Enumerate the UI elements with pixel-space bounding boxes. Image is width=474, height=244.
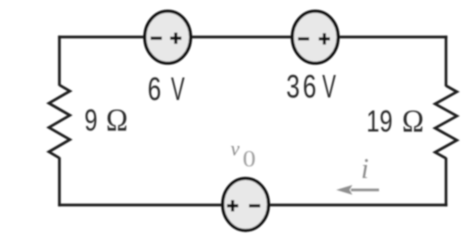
svg-text:6: 6 xyxy=(148,72,162,108)
svg-text:i: i xyxy=(361,154,369,185)
resistor R2 19ohm zigzag xyxy=(435,86,457,159)
svg-text:9: 9 xyxy=(84,102,97,137)
label 9 ohm xyxy=(84,102,127,137)
V1 plus sign xyxy=(170,33,181,44)
label 6 V xyxy=(148,71,185,107)
svg-text:36: 36 xyxy=(286,69,319,105)
svg-text:v: v xyxy=(231,139,240,161)
V2 plus sign xyxy=(319,37,330,40)
resistor R1 9ohm zigzag xyxy=(49,85,70,158)
wire left side upper segment xyxy=(58,36,61,86)
wire bottom side xyxy=(58,204,447,207)
wire right side lower segment xyxy=(445,158,448,207)
current arrow xyxy=(351,189,379,192)
voltage source V1 6V circle xyxy=(145,11,191,63)
label 19 ohm xyxy=(366,103,423,138)
V0 minus sign xyxy=(249,204,260,207)
wire top side xyxy=(58,36,447,39)
voltage source V0 bottom circle xyxy=(223,178,269,230)
svg-text:19: 19 xyxy=(366,103,392,138)
voltage source V2 36V circle xyxy=(292,11,338,63)
V2 minus sign xyxy=(298,37,309,40)
label v0 xyxy=(231,139,256,172)
wire left side lower segment xyxy=(58,157,61,206)
V0 plus sign xyxy=(227,200,238,211)
svg-text:V: V xyxy=(322,69,336,105)
label 36 V xyxy=(286,69,336,105)
wire right side upper segment xyxy=(445,36,448,87)
svg-text:V: V xyxy=(171,71,185,107)
svg-text:Ω: Ω xyxy=(402,103,424,138)
svg-text:Ω: Ω xyxy=(106,102,128,137)
svg-text:0: 0 xyxy=(243,147,256,172)
V1 minus sign xyxy=(151,37,162,40)
